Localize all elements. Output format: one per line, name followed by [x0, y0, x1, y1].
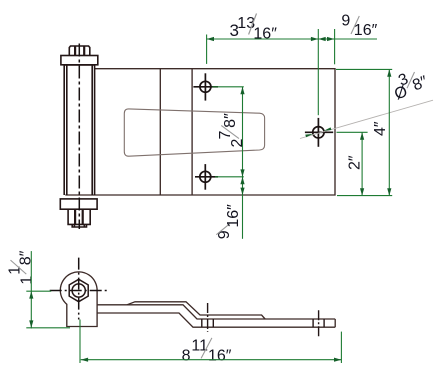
svg-text:16″: 16″: [253, 25, 277, 42]
slot wedge cutout: [124, 109, 264, 156]
ext line hole col: [206, 35, 208, 64]
svg-text:2″: 2″: [347, 155, 364, 170]
rivet 1: [202, 303, 214, 332]
leader arrows: [305, 127, 331, 137]
svg-text:4″: 4″: [372, 121, 389, 136]
boss / pivot bracket: [60, 272, 97, 327]
svg-text:16″: 16″: [354, 22, 378, 39]
ext center: [26, 290, 51, 292]
8 11/16 arrows: [81, 358, 88, 362]
9/16 vert arrows: [240, 177, 244, 184]
dim text 1 1/8 rotated: [7, 250, 36, 284]
dim line 8 11/16: [81, 359, 342, 361]
hinge pin knuckle (barrel): [64, 65, 94, 195]
arm right end: [334, 319, 336, 327]
dim line 3 13/16: [207, 38, 319, 40]
hole H3 big right: [305, 118, 333, 147]
svg-text:8″: 8″: [18, 250, 35, 265]
ext 2in top (hole center): [337, 131, 368, 133]
nut bottom: [68, 209, 90, 224]
ext line big hole col: [317, 29, 319, 115]
ext left 8 11/16: [79, 320, 81, 364]
dim text 8 11/16: [182, 338, 232, 365]
2 7/8 arrows: [240, 87, 244, 94]
svg-text:7: 7: [217, 131, 234, 140]
hole H2 bottom small: [195, 164, 218, 190]
hex nut side: [69, 279, 88, 301]
pin centerline (dash-dot): [78, 44, 80, 230]
dim text 4in rotated: [372, 121, 389, 136]
svg-text:8″: 8″: [222, 113, 239, 128]
arrowheads top view: [207, 37, 392, 196]
svg-text:9: 9: [216, 230, 233, 239]
svg-text:1: 1: [7, 266, 24, 275]
arm bottom edge with jog: [97, 313, 335, 327]
dim line 9/16 + tail: [318, 38, 377, 40]
dim text 2in rotated: [347, 155, 364, 170]
pin end cap: [72, 224, 86, 227]
svg-text:8: 8: [182, 347, 191, 364]
3 13/16 arrows: [207, 37, 214, 41]
latch arm: [97, 302, 335, 327]
9/16 top arrows: [318, 37, 325, 41]
boss crosshair horizontal: [50, 290, 109, 292]
dim line 4in: [388, 69, 390, 195]
4in arrows: [387, 69, 391, 76]
dim line 2 7/8: [242, 87, 244, 177]
svg-text:11: 11: [191, 338, 208, 355]
dim text 9/16 vert rotated: [216, 204, 242, 239]
dim text 3 13/16: [230, 14, 278, 43]
dia label 3/8: [388, 64, 431, 103]
washer top: [61, 56, 98, 65]
washer bottom: [60, 199, 97, 227]
ext 4in top: [336, 68, 392, 70]
arm top edge with jog: [97, 305, 335, 319]
svg-text:1: 1: [19, 276, 36, 285]
leader line for dia label: [300, 100, 433, 138]
doubler plate top: [127, 302, 265, 319]
1 1/8 arrows: [29, 291, 33, 298]
dim text 2 7/8 rotated: [217, 113, 246, 148]
svg-text:9: 9: [341, 13, 350, 30]
ext bottom: [26, 327, 70, 329]
rivet 2: [313, 310, 324, 336]
dim line 1 1/8 + tail: [30, 251, 32, 328]
hole H1 top small: [193, 73, 218, 100]
boss crosshair vertical: [78, 258, 80, 320]
ext from top hole: [212, 86, 244, 88]
plate bend line 1: [159, 69, 161, 195]
ext bottom shared: [337, 195, 392, 197]
dim line 2in: [361, 132, 363, 195]
ext right 8 11/16: [340, 332, 342, 363]
plate bend line 2: [191, 69, 193, 195]
dim text 9/16 top: [341, 13, 377, 39]
dim line 9/16 vert + tail: [242, 177, 244, 239]
ext from bottom hole: [215, 176, 244, 178]
ext line plate right: [334, 29, 336, 64]
plate outline: [65, 69, 335, 195]
svg-text:16″: 16″: [208, 347, 232, 364]
2in arrows: [360, 132, 364, 139]
bolt head (castellated) top: [61, 46, 98, 65]
svg-text:16″: 16″: [225, 204, 242, 228]
